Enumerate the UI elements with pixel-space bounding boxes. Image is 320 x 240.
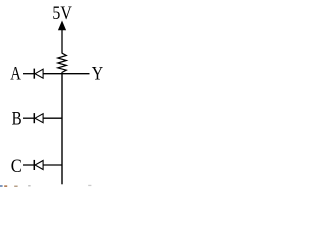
bus wire vertical <box>61 73 63 184</box>
diode D3 triangle <box>35 161 43 170</box>
wire D1 to output node <box>43 73 62 75</box>
supply arrow shaft wire <box>61 30 63 54</box>
svg-text:B: B <box>12 109 22 130</box>
svg-text:A: A <box>10 64 21 85</box>
wire C to diode D3 <box>23 164 34 166</box>
wire B to diode D2 <box>23 117 34 119</box>
diode D3 cathode bar <box>33 160 35 170</box>
output wire to Y <box>62 73 90 75</box>
svg-text:C: C <box>11 156 22 177</box>
supply arrow head <box>58 21 66 31</box>
svg-text:Y: Y <box>92 64 104 85</box>
diode D1 triangle <box>35 69 43 78</box>
diode D1 cathode bar <box>33 69 35 79</box>
wire D3 to bus <box>43 164 62 166</box>
svg-text:5V: 5V <box>52 3 72 24</box>
diode D2 cathode bar <box>33 113 35 123</box>
resistor R <box>58 53 67 73</box>
wire A to diode D1 <box>23 73 34 75</box>
cut-off caption artifacts at bottom <box>0 185 3 187</box>
wire D2 to bus <box>43 117 62 119</box>
diode D2 triangle <box>35 114 43 123</box>
